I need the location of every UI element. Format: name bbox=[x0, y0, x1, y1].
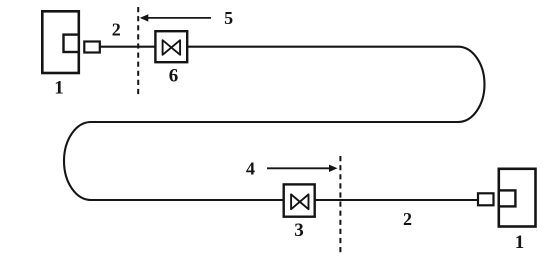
svg-text:2: 2 bbox=[403, 209, 412, 229]
dashed line (top, section mark) bbox=[137, 7, 139, 96]
svg-text:6: 6 bbox=[169, 66, 179, 87]
connector (right device plug) bbox=[478, 193, 494, 205]
svg-text:3: 3 bbox=[294, 220, 304, 241]
svg-text:4: 4 bbox=[246, 158, 255, 178]
svg-text:5: 5 bbox=[224, 8, 233, 28]
wire: serpentine pipe line bbox=[64, 47, 484, 200]
device right (component 1, bottom-right) bbox=[499, 169, 536, 227]
arrow 4 (pointing right) bbox=[267, 165, 338, 172]
svg-text:1: 1 bbox=[54, 78, 64, 99]
arrow 5 (pointing left) bbox=[140, 14, 211, 21]
svg-text:1: 1 bbox=[515, 232, 525, 253]
dashed line (bottom, section mark) bbox=[339, 156, 341, 256]
valve 6 (box with bowtie) bbox=[155, 31, 187, 62]
connector (left device plug) bbox=[84, 42, 100, 53]
valve 3 (box with bowtie) bbox=[284, 184, 315, 216]
device left (component 1, top-left) bbox=[42, 11, 79, 73]
svg-text:2: 2 bbox=[112, 19, 121, 39]
